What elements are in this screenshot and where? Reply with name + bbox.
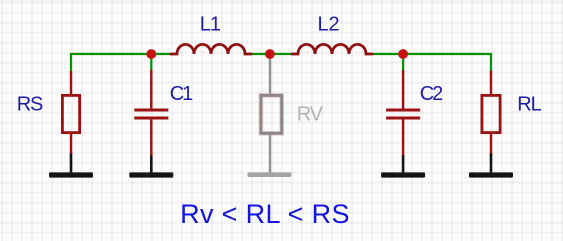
capacitor C1 xyxy=(134,70,168,157)
ground under RS xyxy=(49,154,93,178)
svg-text:RS: RS xyxy=(17,94,43,116)
svg-text:L1: L1 xyxy=(200,14,221,36)
wire: L2 right lead to node C xyxy=(371,53,403,55)
ground under C1 xyxy=(129,156,173,178)
wire: node C down to C2 xyxy=(402,54,404,71)
wire: node A to L1 left lead xyxy=(152,53,172,55)
wire: node C to RL riser xyxy=(403,54,491,72)
resistor RV (dimmed) xyxy=(261,56,282,173)
ground under RV (dimmed) xyxy=(248,172,292,177)
node B (junction dot) xyxy=(265,49,275,59)
svg-text:Rv < RL < RS: Rv < RL < RS xyxy=(180,199,350,229)
wire: RS top green stub xyxy=(70,53,72,72)
resistor RL xyxy=(482,71,500,155)
wire: node A down to C1 xyxy=(150,54,152,71)
node C (junction dot) xyxy=(398,49,408,59)
ground under RL xyxy=(469,154,513,178)
wire: top rail, RS riser to node A xyxy=(71,53,152,54)
svg-text:L2: L2 xyxy=(318,14,340,36)
node A (junction dot) xyxy=(146,49,156,59)
svg-text:RL: RL xyxy=(517,94,541,116)
svg-text:C1: C1 xyxy=(170,83,193,105)
capacitor C2 xyxy=(386,70,420,157)
ground under C2 xyxy=(381,156,425,178)
wire: node B to L2 left lead xyxy=(270,53,293,55)
inductor L2 xyxy=(292,44,372,54)
svg-text:C2: C2 xyxy=(420,83,443,105)
svg-text:RV: RV xyxy=(297,104,324,126)
resistor RS xyxy=(62,71,79,155)
wire: L1 right lead to node B xyxy=(250,53,270,55)
inductor L1 xyxy=(171,44,251,54)
